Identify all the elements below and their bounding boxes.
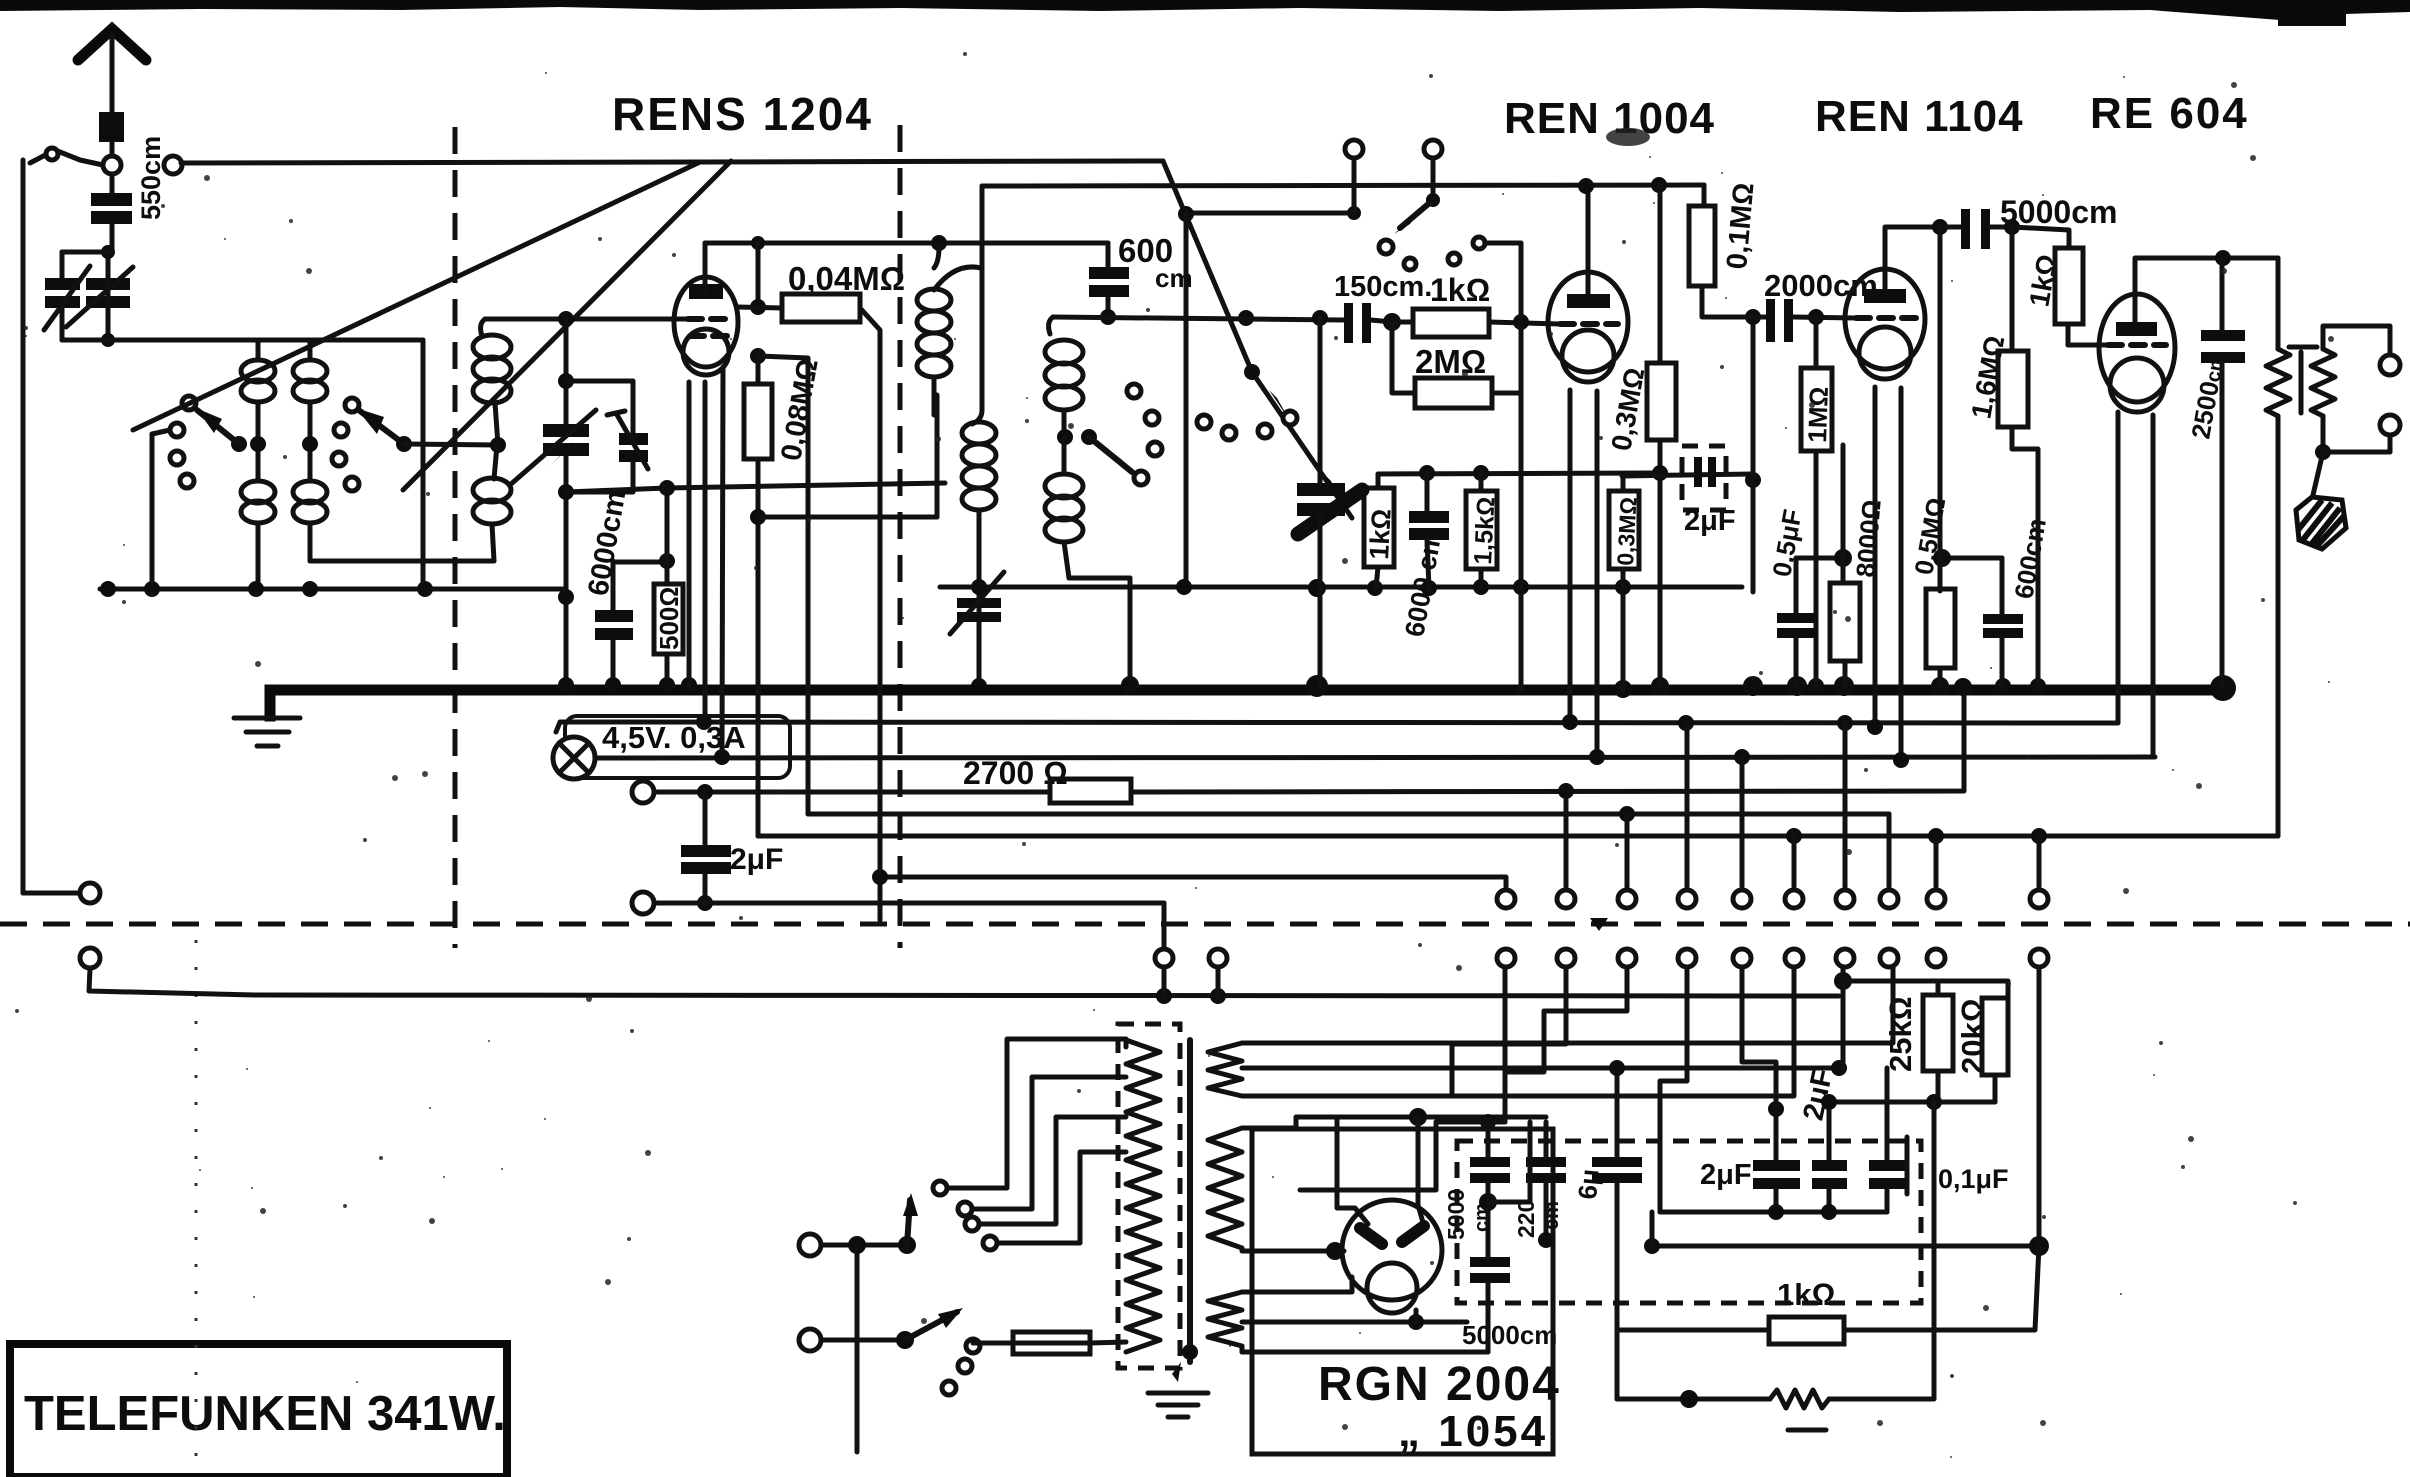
- svg-text:0,1μF: 0,1μF: [1938, 1164, 2009, 1194]
- svg-text:TELEFUNKEN 341W.: TELEFUNKEN 341W.: [24, 1387, 506, 1441]
- svg-text:2000cm: 2000cm: [1764, 268, 1878, 303]
- svg-text:RENS 1204: RENS 1204: [612, 88, 873, 140]
- svg-text:1kΩ: 1kΩ: [1777, 1277, 1835, 1312]
- svg-text:REN 1104: REN 1104: [1815, 92, 2024, 141]
- svg-text:220: 220: [1513, 1200, 1539, 1238]
- svg-text:2μF: 2μF: [730, 843, 783, 876]
- svg-text:20kΩ: 20kΩ: [1955, 998, 1990, 1074]
- svg-text:2MΩ: 2MΩ: [1415, 343, 1486, 380]
- svg-text:„ 1054: „ 1054: [1398, 1407, 1548, 1456]
- svg-text:25kΩ: 25kΩ: [1883, 996, 1918, 1072]
- svg-text:0,3MΩ: 0,3MΩ: [1612, 496, 1642, 566]
- svg-text:1MΩ: 1MΩ: [1802, 386, 1834, 443]
- svg-text:500Ω: 500Ω: [654, 587, 684, 650]
- svg-text:150cm.: 150cm.: [1334, 271, 1432, 303]
- svg-text:RE 604: RE 604: [2090, 89, 2249, 138]
- svg-text:5000cm: 5000cm: [1462, 1320, 1557, 1350]
- svg-text:6μ: 6μ: [1572, 1168, 1605, 1201]
- svg-text:2μF: 2μF: [1684, 505, 1736, 537]
- svg-text:0,04MΩ: 0,04MΩ: [788, 260, 905, 297]
- svg-text:550cm: 550cm: [136, 136, 166, 220]
- svg-text:1kΩ: 1kΩ: [1430, 272, 1490, 308]
- svg-text:1kΩ: 1kΩ: [1364, 508, 1397, 560]
- svg-text:RGN 2004: RGN 2004: [1318, 1358, 1561, 1411]
- svg-text:1,5kΩ: 1,5kΩ: [1469, 496, 1501, 565]
- svg-text:2μF: 2μF: [1700, 1159, 1752, 1191]
